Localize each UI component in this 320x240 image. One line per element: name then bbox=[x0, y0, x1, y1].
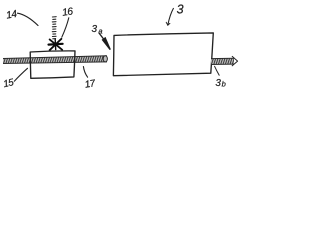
arrow from label 3a to input shaft bbox=[99, 33, 111, 50]
svg-text:17: 17 bbox=[84, 78, 97, 91]
output shaft hatched band 3b bbox=[211, 56, 238, 65]
leader line from label 16 bbox=[62, 18, 69, 37]
svg-text:b: b bbox=[222, 80, 226, 89]
leader line from label 14 bbox=[18, 13, 39, 25]
shaft right end cap bbox=[103, 56, 107, 62]
star coupling symbol on top of box bbox=[49, 39, 63, 50]
label 3b bbox=[215, 78, 225, 89]
svg-text:3: 3 bbox=[177, 2, 184, 16]
leader line from label 3b bbox=[215, 66, 220, 75]
label 3a bbox=[92, 24, 103, 36]
open arrowhead at output shaft end bbox=[232, 56, 237, 65]
vertical hatched actuator shaft 16 bbox=[52, 17, 56, 39]
svg-text:15: 15 bbox=[2, 77, 15, 90]
leader line from label 17 bbox=[83, 67, 87, 78]
label 15 bbox=[2, 77, 15, 90]
transmission box 3 (right) bbox=[113, 33, 213, 76]
leader line from label 15 bbox=[14, 68, 27, 81]
svg-text:3: 3 bbox=[92, 24, 98, 35]
electric machine box (left) bbox=[30, 51, 75, 78]
svg-text:3: 3 bbox=[215, 78, 221, 89]
label 16 bbox=[61, 6, 74, 18]
leader line from label 3 bbox=[166, 8, 173, 25]
label 14 bbox=[5, 9, 18, 22]
main shaft hatched band 15/17 bbox=[3, 56, 107, 64]
svg-text:14: 14 bbox=[5, 9, 18, 22]
svg-text:16: 16 bbox=[61, 6, 74, 18]
label 17 bbox=[84, 78, 97, 91]
